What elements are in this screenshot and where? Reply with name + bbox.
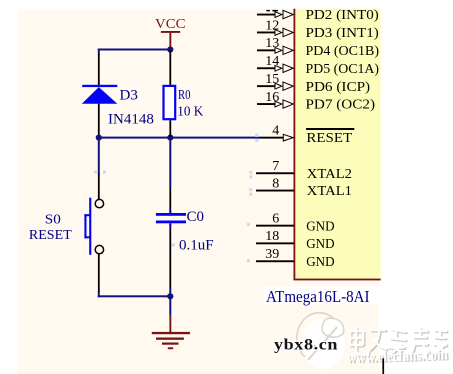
node mid (167, 135, 173, 141)
svg-text:XTAL2: XTAL2 (307, 167, 352, 182)
node left mid (96, 135, 102, 141)
pin resistor top (169, 51, 171, 86)
pin 6 GND (256, 211, 335, 234)
label ATmega16L-8AI (264, 287, 380, 307)
node bottom (167, 293, 173, 299)
power VCC (155, 17, 186, 47)
svg-text:6: 6 (272, 211, 279, 226)
svg-text:R0: R0 (178, 88, 191, 103)
svg-text:S0: S0 (45, 213, 61, 228)
watermark chinese characters (349, 327, 448, 356)
svg-text:PD5 (OC1A): PD5 (OC1A) (306, 62, 380, 77)
svg-text:XTAL1: XTAL1 (307, 184, 352, 199)
pin 14 PD5 (OC1A) (257, 54, 379, 77)
svg-text:RESET: RESET (306, 131, 352, 146)
white margins (0, 0, 18, 374)
switch S0 (84, 198, 103, 255)
svg-text:4: 4 (272, 123, 279, 138)
svg-text:PD7 (OC2): PD7 (OC2) (306, 98, 376, 113)
svg-text:D3: D3 (120, 88, 138, 104)
wire switch upper (98, 138, 100, 174)
capacitor C0 (156, 211, 186, 227)
selection mark at reset wire end (94, 134, 259, 263)
pin 11 PD2 (INT0) (257, 8, 379, 23)
wire mid horizontal to IC (98, 137, 259, 139)
pin 12 PD3 (INT1) (257, 18, 379, 41)
diode D3 (82, 85, 118, 104)
pin switch lower (98, 253, 100, 292)
pin 15 PD6 (ICP) (257, 72, 370, 95)
pin 16 PD7 (OC2) (257, 90, 375, 113)
wire to bottom node (169, 288, 171, 297)
svg-text:PD2 (INT0): PD2 (INT0) (306, 8, 380, 23)
svg-text:15: 15 (265, 72, 279, 87)
pin 8 XTAL1 (256, 176, 352, 199)
ground (152, 296, 190, 349)
pin resistor bottom (169, 120, 171, 136)
svg-text:39: 39 (265, 247, 279, 262)
svg-text:GND: GND (306, 219, 334, 234)
svg-text:PD4 (OC1B): PD4 (OC1B) (306, 44, 380, 59)
pin 7 XTAL2 (256, 159, 352, 182)
svg-text:0.1uF: 0.1uF (179, 237, 214, 253)
svg-text:C0: C0 (187, 209, 205, 225)
svg-text:GND: GND (306, 237, 334, 252)
svg-text:7: 7 (272, 159, 279, 174)
svg-text:16: 16 (265, 90, 279, 105)
sheet (18, 9, 379, 374)
pin diode bottom (98, 104, 100, 136)
resistor R0 (164, 86, 176, 119)
wire bottom left corner up (98, 291, 100, 297)
svg-text:10 K: 10 K (177, 105, 203, 120)
wire left top corner down (98, 49, 100, 55)
svg-text:VCC: VCC (155, 17, 186, 32)
svg-text:PD6 (ICP): PD6 (ICP) (306, 80, 371, 95)
svg-text:PD3 (INT1): PD3 (INT1) (306, 26, 380, 41)
IC U1 ATmega16L-8AI body (294, 9, 381, 281)
svg-text:14: 14 (265, 54, 279, 69)
svg-text:ybx8.cn: ybx8.cn (274, 337, 338, 354)
svg-text:ATmega16L-8AI: ATmega16L-8AI (266, 287, 370, 306)
wire stub bottom right (382, 359, 384, 374)
pin 4 RESET (259, 123, 354, 145)
pin 13 PD4 (OC1B) (257, 36, 379, 59)
pin 18 GND (256, 229, 335, 252)
svg-text:IN4148: IN4148 (108, 112, 154, 128)
svg-text:www.elecfans.com: www.elecfans.com (347, 346, 449, 367)
watermark logo circle (297, 313, 345, 369)
pin 39 GND (256, 247, 335, 270)
wire VCC node horizontal (98, 49, 171, 51)
svg-text:13: 13 (265, 36, 279, 51)
watermark www.elecfans.com (347, 346, 450, 368)
svg-text:RESET: RESET (29, 228, 72, 243)
pin diode top (98, 54, 100, 85)
svg-text:18: 18 (265, 229, 279, 244)
pin switch upper (98, 174, 100, 200)
pin capacitor bottom (169, 227, 171, 288)
wire bottom horizontal (98, 295, 171, 297)
svg-text:8: 8 (272, 176, 279, 191)
pin capacitor top (169, 188, 171, 211)
svg-text:GND: GND (306, 255, 334, 270)
node at VCC (167, 46, 173, 52)
svg-text:12: 12 (265, 18, 279, 33)
wire mid vertical (169, 138, 171, 188)
